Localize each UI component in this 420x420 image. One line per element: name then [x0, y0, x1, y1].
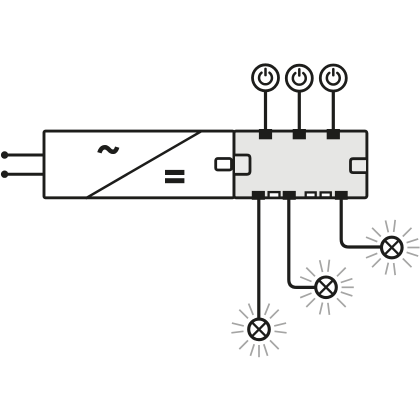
wire lamp E2	[289, 198, 317, 287]
lamp E2	[300, 260, 354, 315]
terminal bottom aux C	[321, 192, 331, 197]
wire input L	[4, 154, 44, 157]
DC symbol =	[165, 170, 184, 175]
terminal bottom 3	[335, 191, 348, 200]
terminal dot input L	[1, 151, 8, 158]
divider diagonal of U1	[86, 131, 202, 198]
connector tab of U1	[216, 159, 232, 171]
power supply U1 (AC/DC converter)	[44, 131, 234, 198]
socket notch left of U2	[235, 155, 250, 174]
socket notch right of U2	[351, 159, 367, 173]
terminal top 3	[327, 129, 340, 139]
wire button 3	[332, 92, 335, 130]
controller module U2	[234, 131, 367, 198]
push button S1	[253, 65, 279, 91]
terminal dot input N	[1, 171, 8, 178]
terminal bottom aux A	[269, 192, 280, 198]
wire button 2	[298, 92, 301, 130]
terminal top 2	[293, 129, 306, 139]
terminal bottom 1	[252, 191, 265, 200]
push button S3	[320, 65, 346, 91]
AC symbol ~	[99, 147, 117, 153]
lamp E3	[366, 220, 420, 275]
wire button 1	[264, 92, 267, 131]
lamp E1	[231, 304, 286, 358]
push button S2	[286, 65, 312, 91]
terminal bottom 2	[283, 191, 296, 200]
wire input N	[4, 173, 44, 176]
terminal bottom aux B	[306, 192, 316, 197]
wire lamp E3	[341, 198, 382, 247]
terminal top 1	[259, 129, 272, 139]
wire lamp E1	[257, 198, 260, 319]
